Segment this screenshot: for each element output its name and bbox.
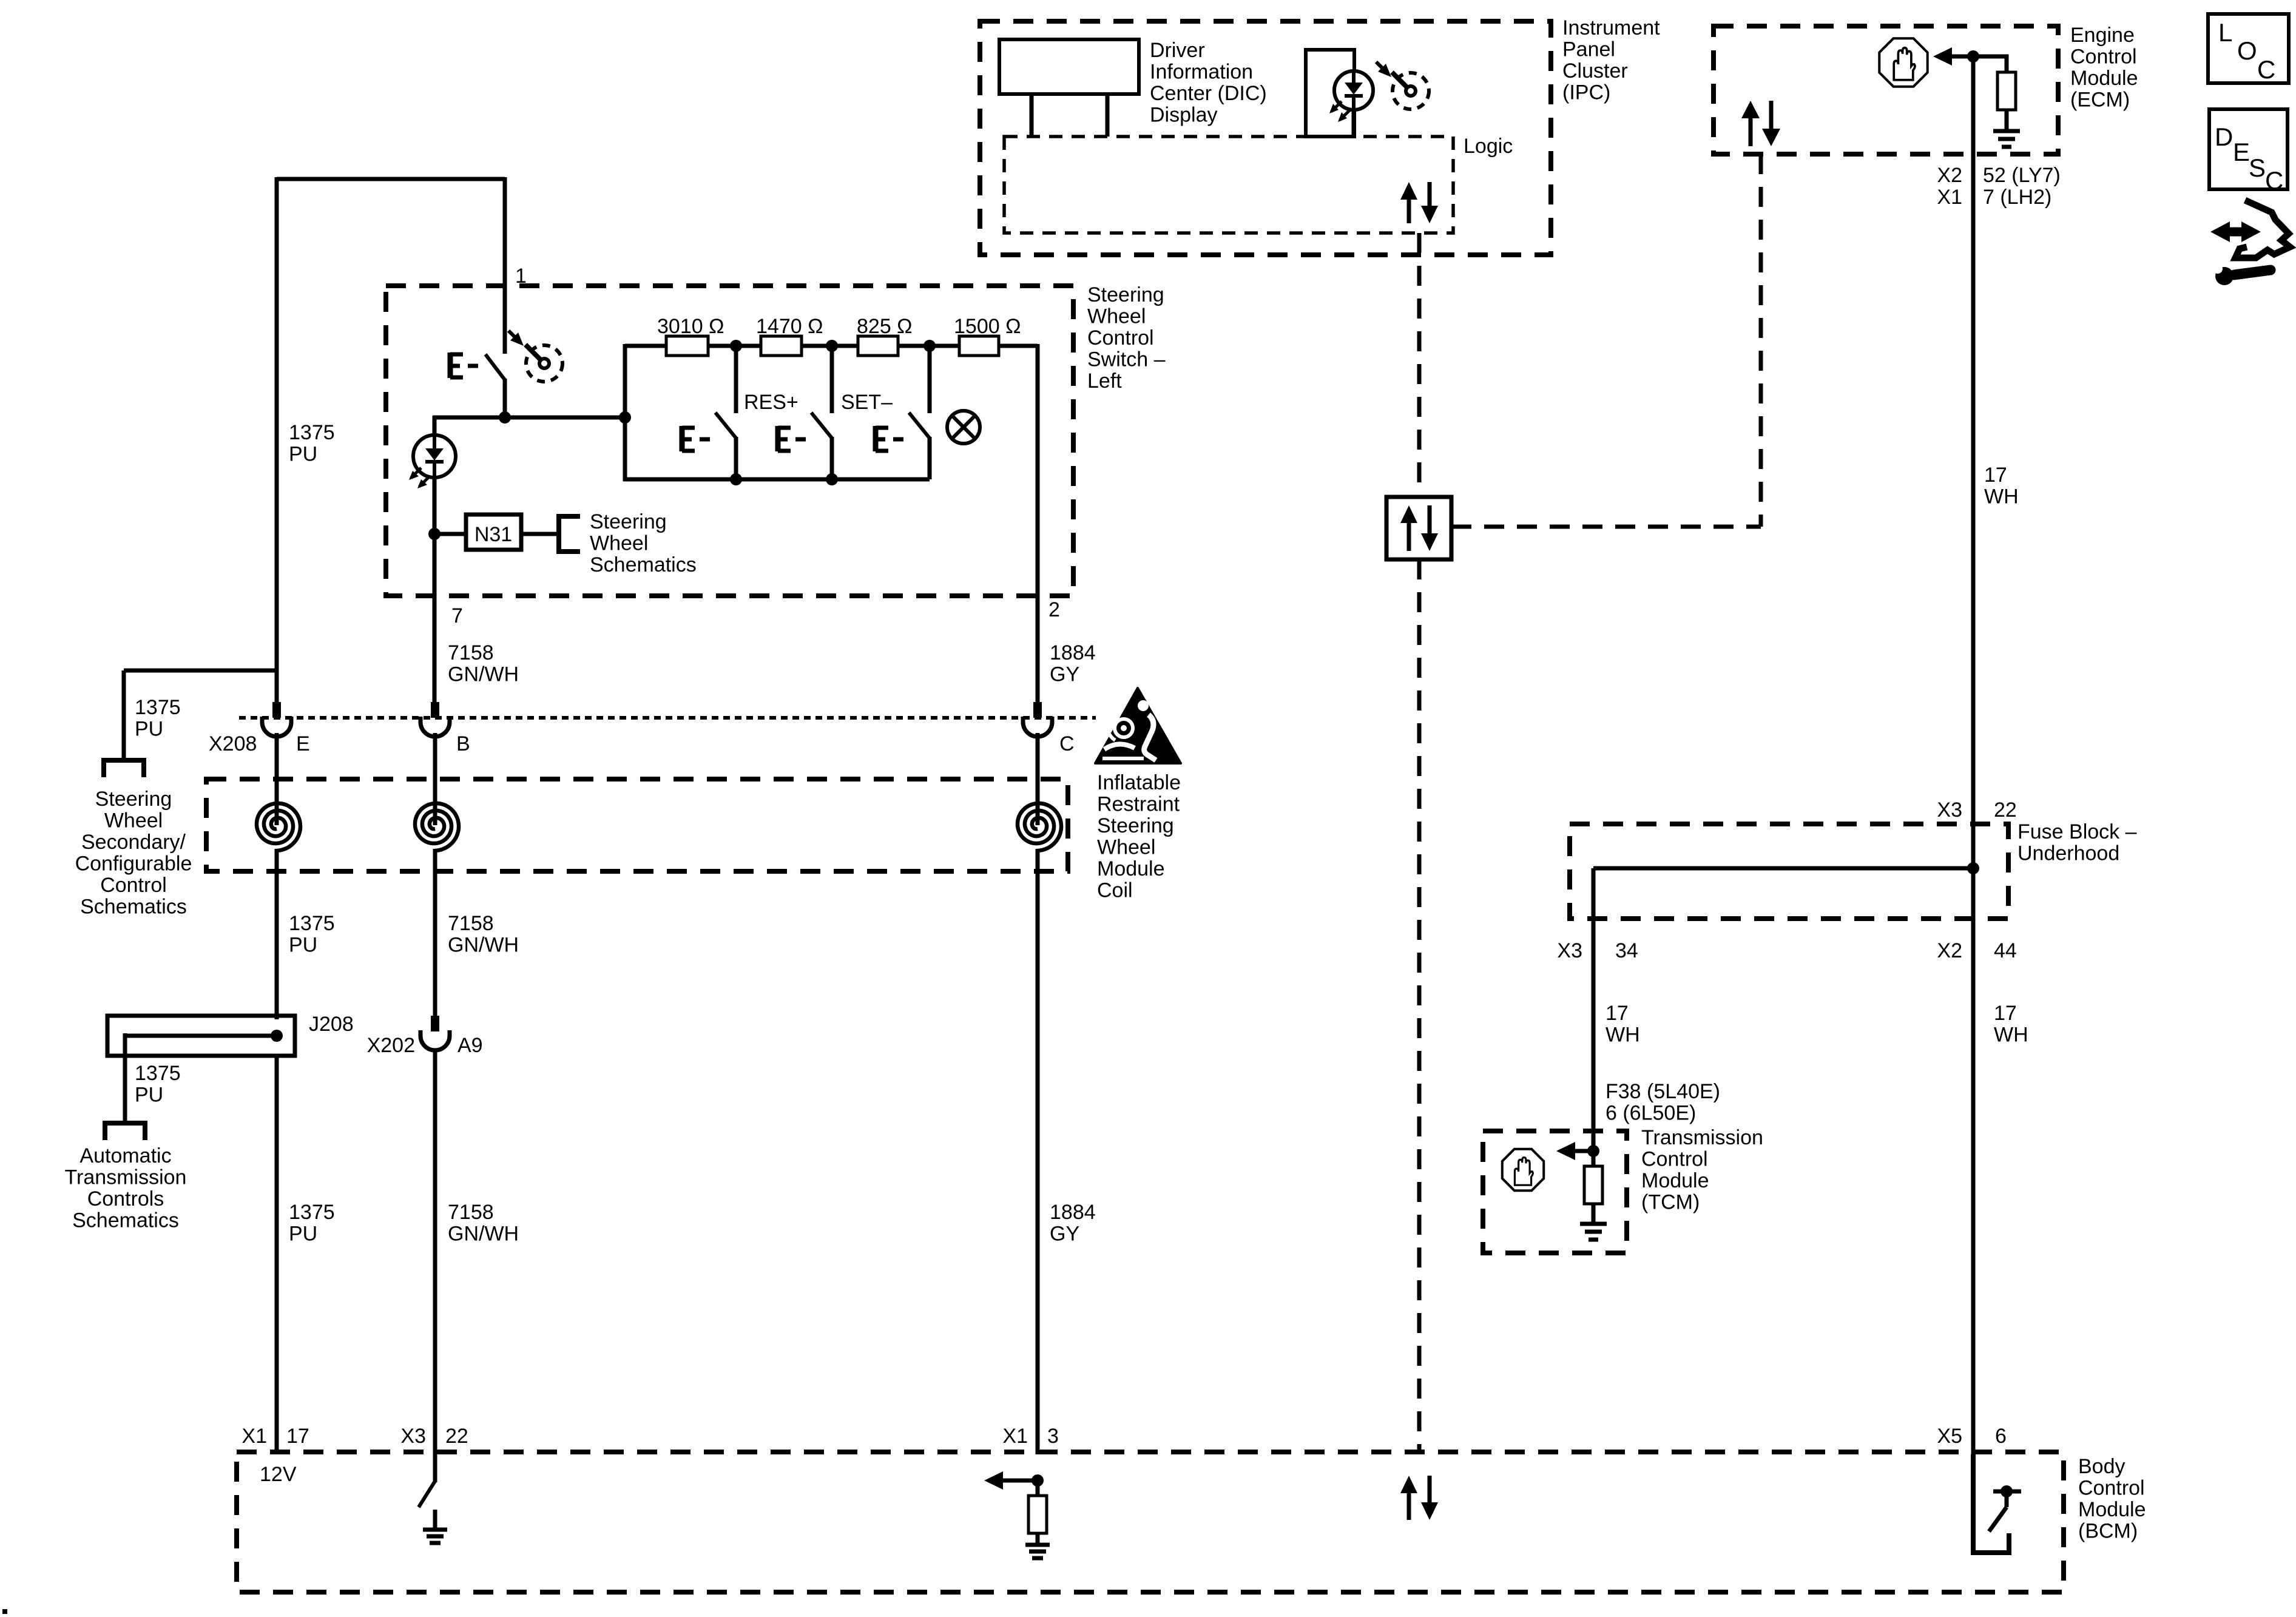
svg-text:Schematics: Schematics [590, 553, 697, 576]
svg-text:X2: X2 [1937, 164, 1962, 187]
svg-text:Panel: Panel [1562, 38, 1615, 61]
svg-text:1375: 1375 [135, 696, 181, 719]
svg-text:Module: Module [1641, 1169, 1709, 1192]
switch S2 cancel bottom wire [734, 437, 738, 479]
svg-text:Coil: Coil [1097, 879, 1133, 902]
wire 17 WH fuse block to BCM [1971, 868, 1976, 1454]
svg-text:X208: X208 [209, 732, 257, 755]
ECM pull-up resistor [1997, 72, 2016, 110]
connector X202 male terminal [431, 1016, 439, 1031]
svg-text:GN/WH: GN/WH [448, 1223, 519, 1246]
coil spiral E [257, 803, 300, 851]
DIC display rectangle [999, 39, 1139, 94]
wire pin1 feed vertical into switch box [503, 177, 507, 354]
dashed box Transmission Control Module (TCM) [1483, 1131, 1627, 1253]
TCM junction dot [1587, 1145, 1599, 1157]
svg-text:6: 6 [1995, 1425, 2007, 1448]
connector X208 pin C female cup [1023, 717, 1052, 737]
connector X208 pin E female cup [262, 717, 291, 737]
fuse block internal wire [1593, 866, 1973, 871]
svg-text:7158: 7158 [448, 641, 494, 664]
svg-text:1375: 1375 [135, 1062, 181, 1085]
svg-text:E: E [2233, 138, 2250, 166]
splice pack J208 box [107, 1016, 295, 1056]
DESC reference box [2209, 109, 2288, 189]
svg-text:Information: Information [1150, 61, 1253, 84]
coil spiral C [1018, 803, 1061, 851]
svg-text:52 (LY7): 52 (LY7) [1983, 164, 2061, 187]
wire ladder left rail [623, 344, 627, 481]
svg-text:Module: Module [1097, 857, 1165, 880]
svg-text:17: 17 [1984, 464, 2007, 487]
IPC logic serial arrows [1407, 197, 1411, 223]
serial data link box [1386, 497, 1451, 559]
svg-text:PU: PU [289, 1223, 317, 1246]
BCM discrete input junction [1032, 1474, 1044, 1487]
svg-text:1470 Ω: 1470 Ω [756, 315, 823, 338]
coil spiral B [415, 803, 459, 851]
repair icon broken wire outline [2235, 200, 2290, 258]
arrow pointing to gauge icon [508, 331, 516, 339]
ECM arrow to octagon [1950, 55, 1973, 59]
ECM stop-hand octagon [1879, 38, 1927, 86]
switch S1 lower wire [503, 379, 507, 417]
svg-text:Module: Module [2070, 67, 2138, 90]
serial data link arrows [1407, 521, 1411, 551]
BCM input wire to resistor [1036, 1480, 1040, 1497]
LED indicator D1 [413, 435, 456, 478]
svg-text:17: 17 [1606, 1002, 1629, 1025]
svg-text:B: B [456, 732, 470, 755]
BCM X5-6 wire and L-path [1973, 1454, 2009, 1553]
wire J208 branch down [123, 1033, 127, 1121]
BCM switch contact dot [2001, 1485, 2013, 1497]
svg-text:Body: Body [2078, 1455, 2125, 1478]
svg-text:(BCM): (BCM) [2078, 1520, 2138, 1543]
svg-text:PU: PU [135, 1084, 163, 1107]
DIC display legs [1030, 94, 1034, 137]
wire B continues to BCM [433, 1049, 437, 1454]
wire through coil B [433, 733, 437, 825]
wire through coil C [1036, 733, 1040, 825]
dashed serial data line to BCM [1417, 559, 1422, 1452]
dashed box Instrument Panel Cluster (IPC) [980, 21, 1551, 255]
svg-text:Restraint: Restraint [1097, 793, 1180, 816]
svg-text:X202: X202 [367, 1034, 415, 1057]
svg-text:O: O [2237, 36, 2257, 65]
svg-text:Wheel: Wheel [1097, 836, 1155, 859]
svg-text:22: 22 [1994, 798, 2017, 822]
svg-text:Configurable: Configurable [75, 852, 192, 876]
svg-text:Wheel: Wheel [590, 532, 648, 555]
svg-text:E: E [296, 732, 310, 755]
svg-text:PU: PU [289, 934, 317, 957]
connector X208 pin E male terminal [272, 702, 281, 718]
dashed box Inflatable Restraint Steering Wheel Module Coil [206, 779, 1068, 871]
wire E continues to BCM [275, 1056, 279, 1454]
wire LED drop [433, 416, 437, 536]
BCM resistor to ground wire [1036, 1532, 1040, 1544]
junction dot at N31 tap [428, 528, 441, 540]
svg-text:7 (LH2): 7 (LH2) [1983, 186, 2051, 209]
wire switch S1 to LED drop and ladder [433, 416, 625, 420]
switch S4 SET- blade [909, 413, 930, 438]
BCM ground switch wire [433, 1454, 437, 1482]
symbol E- for switch S2 cancel [680, 426, 685, 451]
svg-text:J208: J208 [309, 1013, 354, 1036]
off-page reference to Steering Wheel Secondary Schematics [104, 760, 144, 777]
svg-text:Steering: Steering [1087, 283, 1164, 306]
svg-text:X3: X3 [1557, 939, 1582, 962]
svg-text:GY: GY [1050, 663, 1079, 686]
svg-text:Secondary/: Secondary/ [81, 831, 186, 854]
BCM pull-down resistor [1028, 1496, 1047, 1533]
TCM wire to resistor [1592, 1151, 1596, 1167]
resistor R4 1500 ohm [959, 336, 999, 356]
resistor R1 3010 ohm [666, 336, 708, 356]
BCM ground switch stub [433, 1510, 437, 1528]
dashed box Logic [1004, 137, 1453, 233]
connector X202 female cup [420, 1030, 450, 1050]
svg-text:12V: 12V [260, 1463, 297, 1486]
junction dot ladder feed [619, 411, 631, 424]
svg-text:WH: WH [1984, 485, 2019, 508]
repair icon double arrow [2221, 228, 2250, 237]
svg-text:Wheel: Wheel [1087, 305, 1146, 328]
switch S2 cancel top stub [734, 346, 738, 413]
junction dot switch S1 output [499, 411, 511, 424]
BCM switch blade [1989, 1507, 2007, 1531]
svg-text:34: 34 [1615, 939, 1638, 962]
wire N31 to off-page [521, 532, 559, 536]
svg-text:Center (DIC): Center (DIC) [1150, 82, 1267, 105]
wire 1375 PU tall vertical to X208-E [275, 177, 279, 703]
svg-text:PU: PU [289, 443, 317, 466]
svg-text:Switch –: Switch – [1087, 348, 1166, 371]
svg-text:S: S [2249, 154, 2266, 182]
svg-text:GN/WH: GN/WH [448, 663, 519, 686]
svg-text:22: 22 [445, 1425, 468, 1448]
arrow pointing to IPC gauge [1376, 62, 1384, 70]
connector X208 pin B female cup [420, 717, 450, 737]
svg-text:Display: Display [1150, 104, 1217, 127]
ECM ground [1993, 129, 2020, 133]
LOC reference box [2208, 14, 2289, 83]
svg-text:X5: X5 [1937, 1425, 1962, 1448]
symbol E- for switch S1 [448, 353, 453, 378]
SIR warning triangle (inflatable restraint) [1095, 688, 1181, 763]
svg-text:1375: 1375 [289, 912, 335, 935]
svg-text:7158: 7158 [448, 1201, 494, 1224]
svg-text:17: 17 [286, 1425, 309, 1448]
svg-text:Wheel: Wheel [104, 809, 163, 832]
BCM ground (X1 3) [1025, 1543, 1050, 1547]
dashed serial data line horizontal to ECM branch [1451, 525, 1761, 529]
junction dot J208 [271, 1030, 283, 1042]
svg-text:Transmission: Transmission [1641, 1126, 1763, 1149]
svg-text:RES+: RES+ [744, 391, 799, 414]
wire inside J208 [125, 1034, 277, 1038]
svg-text:Underhood: Underhood [2017, 842, 2119, 865]
svg-text:Controls: Controls [87, 1187, 164, 1210]
resistor R3 825 ohm [858, 336, 898, 356]
svg-text:44: 44 [1994, 939, 2017, 962]
svg-text:Engine: Engine [2070, 24, 2135, 47]
off-page reference to Steering Wheel Schematics [559, 516, 580, 552]
wire branch to steering wheel secondary schematics [124, 669, 277, 673]
switch S3 RES+ top stub [830, 346, 834, 413]
IPC LED wire to logic [1352, 110, 1356, 137]
wire drop to off-page symbol [122, 670, 126, 760]
svg-text:1500 Ω: 1500 Ω [954, 315, 1021, 338]
svg-text:825 Ω: 825 Ω [857, 315, 913, 338]
BCM switch contact tick [1993, 1490, 2021, 1494]
svg-text:A9: A9 [458, 1034, 483, 1057]
svg-text:7158: 7158 [448, 912, 494, 935]
dashed box Fuse Block - Underhood [1570, 824, 2008, 919]
svg-text:Inflatable: Inflatable [1097, 771, 1181, 794]
switch S3 RES+ blade [811, 413, 832, 438]
switch S4 SET- bottom wire [928, 437, 932, 479]
BCM ground (X3 22) [423, 1528, 447, 1532]
fuse block junction dot [1967, 862, 1979, 874]
switch S1 cruise on/off blade [485, 354, 505, 380]
svg-text:7: 7 [451, 604, 463, 627]
lamp (switch backlight bulb) [947, 411, 980, 444]
svg-text:C: C [1059, 732, 1075, 755]
svg-text:X3: X3 [400, 1425, 426, 1448]
wire through coil E [275, 733, 279, 825]
dashed box Body Control Module (BCM) [237, 1452, 2064, 1592]
svg-text:3010 Ω: 3010 Ω [657, 315, 724, 338]
svg-text:Control: Control [1641, 1148, 1708, 1171]
junction dots top rail [730, 340, 742, 352]
BCM serial arrows [1407, 1491, 1411, 1520]
svg-text:X1: X1 [241, 1425, 267, 1448]
svg-text:WH: WH [1994, 1024, 2028, 1047]
svg-text:SET–: SET– [841, 391, 893, 414]
svg-text:Driver: Driver [1150, 39, 1205, 62]
svg-text:WH: WH [1606, 1024, 1640, 1047]
dotted connector line X208 [239, 716, 1096, 720]
ECM junction dot [1967, 50, 1979, 62]
svg-text:1884: 1884 [1050, 641, 1096, 664]
TCM pull-down resistor [1584, 1166, 1602, 1204]
svg-text:C: C [2257, 55, 2275, 84]
dashed serial data line up to ECM [1759, 154, 1763, 527]
svg-text:F38 (5L40E): F38 (5L40E) [1606, 1080, 1720, 1103]
BCM discrete input arrow [1001, 1479, 1038, 1483]
svg-text:X1: X1 [1002, 1425, 1028, 1448]
svg-text:(IPC): (IPC) [1562, 81, 1610, 104]
svg-text:Transmission: Transmission [65, 1166, 187, 1189]
dashed box Steering Wheel Control Switch - Left [386, 286, 1073, 596]
wire to N31 [434, 532, 466, 536]
svg-text:Automatic: Automatic [79, 1144, 171, 1167]
svg-text:Cluster: Cluster [1562, 59, 1628, 83]
switch S4 SET- top stub [928, 346, 932, 413]
svg-text:(ECM): (ECM) [2070, 89, 2130, 112]
svg-text:L: L [2218, 18, 2232, 47]
svg-text:Control: Control [2078, 1477, 2145, 1500]
svg-text:Steering: Steering [1097, 814, 1174, 837]
connector X208 pin C male terminal [1033, 702, 1042, 718]
svg-text:Left: Left [1087, 370, 1122, 393]
BCM switch stub [2005, 1491, 2009, 1507]
svg-text:Control: Control [2070, 46, 2137, 69]
switch S2 cancel blade [715, 413, 736, 438]
svg-text:1375: 1375 [289, 1201, 335, 1224]
svg-text:Logic: Logic [1464, 135, 1513, 158]
svg-text:3: 3 [1047, 1425, 1059, 1448]
gauge icon (cruise engaged indicator) [526, 345, 562, 382]
svg-text:Module: Module [2078, 1498, 2146, 1521]
svg-text:Control: Control [100, 874, 167, 897]
page corner artifact dot [2, 1609, 7, 1614]
TCM stop-hand octagon [1502, 1149, 1544, 1190]
wire fuse block to TCM [1592, 868, 1596, 1153]
BCM ground switch blade [419, 1481, 435, 1507]
svg-text:Schematics: Schematics [80, 896, 187, 919]
IPC LED housing rect [1306, 50, 1354, 137]
svg-text:Steering: Steering [95, 788, 172, 811]
dashed serial data line IPC down [1417, 233, 1422, 497]
wire ladder top rail [625, 344, 1038, 348]
svg-text:GY: GY [1050, 1223, 1079, 1246]
svg-text:6 (6L50E): 6 (6L50E) [1606, 1102, 1696, 1125]
svg-text:X1: X1 [1937, 186, 1962, 209]
wire pin1 feed top horizontal [277, 177, 505, 181]
IPC gauge icon (speedometer) [1393, 73, 1429, 109]
svg-text:Steering: Steering [590, 510, 667, 533]
TCM resistor to ground wire [1592, 1204, 1596, 1223]
wire 17 WH from ECM [1971, 56, 1976, 868]
TCM ground [1580, 1222, 1607, 1226]
wire ladder right rail / pin 2 vertical [1036, 344, 1040, 703]
junction dots bottom rail [730, 473, 742, 485]
connector X208 pin B male terminal [431, 702, 439, 718]
dashed box Engine Control Module (ECM) [1714, 26, 2058, 154]
ECM serial arrows [1749, 116, 1753, 146]
svg-text:Instrument: Instrument [1562, 16, 1660, 39]
svg-text:Schematics: Schematics [72, 1209, 179, 1232]
svg-text:Control: Control [1087, 326, 1154, 349]
ECM resistor to ground wire [2005, 109, 2009, 130]
wire LED bottom to pin 7 [433, 534, 437, 703]
svg-text:GN/WH: GN/WH [448, 934, 519, 957]
resistor R2 1470 ohm [761, 336, 802, 356]
svg-text:N31: N31 [474, 523, 512, 546]
svg-text:1375: 1375 [289, 421, 335, 444]
svg-text:17: 17 [1994, 1002, 2017, 1025]
wire ladder bottom rail [623, 478, 930, 482]
symbol E- for switch S4 SET- [873, 426, 879, 451]
svg-text:1884: 1884 [1050, 1201, 1096, 1224]
svg-text:C: C [2265, 166, 2283, 195]
switch S3 RES+ bottom wire [830, 437, 834, 479]
off-page reference to Automatic Transmission Controls Schematics [105, 1123, 145, 1140]
connector N31 box [466, 515, 521, 550]
svg-text:(TCM): (TCM) [1641, 1191, 1700, 1214]
svg-text:PU: PU [135, 718, 163, 741]
svg-text:2: 2 [1048, 598, 1060, 621]
svg-text:D: D [2215, 123, 2233, 151]
ECM resistor branch wire [1973, 56, 2007, 73]
IPC LED indicator [1334, 71, 1373, 110]
repair icon wrench [2234, 270, 2271, 275]
svg-text:Fuse Block –: Fuse Block – [2017, 820, 2137, 843]
symbol E- for switch S3 RES+ [775, 426, 781, 451]
TCM arrow to octagon [1573, 1149, 1593, 1153]
svg-text:X2: X2 [1937, 939, 1962, 962]
svg-text:X3: X3 [1937, 798, 1962, 822]
